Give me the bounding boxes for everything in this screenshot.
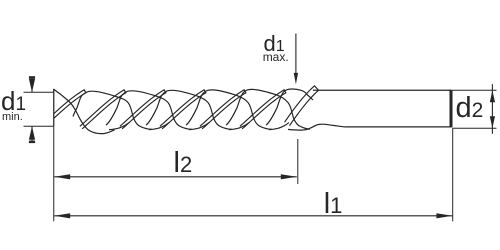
extension line from shank end down <box>452 128 454 221</box>
label d2 <box>456 92 484 125</box>
bottom flat rise 4 <box>229 123 249 130</box>
flute land band 6 <box>240 90 286 129</box>
shank end face (thick) <box>450 90 453 128</box>
helix wave 2 (top arc + flanks + bottom flat) <box>106 91 192 130</box>
dim d1min: dimension line, outside arrows <box>31 77 33 93</box>
dim d2: dimension line with arrows <box>491 84 493 134</box>
bottom flat rise 5 <box>269 123 289 130</box>
flute land band 3 <box>120 90 166 129</box>
label d1 max. <box>264 31 285 57</box>
tip face line <box>53 89 55 127</box>
dim d1min: bottom extension line <box>24 125 54 127</box>
flute land band 4 <box>160 90 206 129</box>
tip edge from face corner (partial wave) <box>54 89 115 133</box>
dim d1min: top extension line <box>24 91 54 93</box>
helix wave 6 (top arc + flanks + bottom flat) <box>266 89 313 125</box>
extension line from tip face down <box>53 127 55 222</box>
flute land band 1 <box>40 90 86 129</box>
flute land band 5 <box>200 90 246 129</box>
label d1 min. <box>1 86 26 117</box>
shank bottom line <box>345 126 451 128</box>
flute-to-shank bottom transition <box>288 124 345 130</box>
extension line at end of flutes <box>297 139 299 184</box>
helix wave 5 (top arc + flanks + bottom flat) <box>226 89 310 129</box>
bottom flat rise 1 <box>109 123 129 130</box>
dim d2: top extension line <box>453 89 497 91</box>
helix wave 4 (top arc + flanks + bottom flat) <box>186 90 272 129</box>
dim d1max: leader with down arrow <box>295 34 297 77</box>
label l2 <box>174 147 193 180</box>
shank top line <box>313 89 451 91</box>
dim l1: dimension line <box>54 215 452 217</box>
dim l2: dimension line <box>54 176 297 178</box>
dim d2: bottom extension line <box>453 127 497 129</box>
helix wave 1 (top arc + flanks + bottom flat) <box>73 91 152 129</box>
final wide land band onto shank <box>285 86 319 126</box>
flute land band 2 <box>80 90 126 129</box>
helix wave 3 (top arc + flanks + bottom flat) <box>146 90 232 129</box>
label l1 <box>324 188 343 221</box>
bottom flat rise 3 <box>189 123 209 130</box>
bottom flat rise 2 <box>149 123 169 130</box>
